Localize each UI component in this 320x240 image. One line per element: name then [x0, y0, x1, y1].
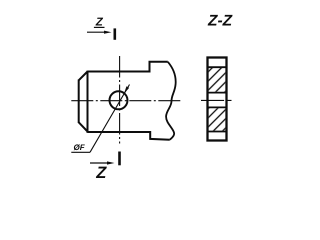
- svg-text:Z: Z: [95, 164, 107, 182]
- leader arrowhead: [124, 86, 129, 94]
- hole circle: [110, 91, 128, 109]
- cutting plane bottom: arrow line: [90, 162, 111, 164]
- section centerline: [201, 99, 232, 101]
- svg-text:ØF: ØF: [74, 143, 86, 152]
- section divider top: [208, 66, 227, 68]
- label shelf underline ØF: [71, 151, 90, 153]
- cutting plane bottom: arrowhead: [107, 161, 115, 164]
- bottom chamfer: [79, 122, 88, 132]
- section hole upper line: [208, 92, 227, 94]
- section divider bottom: [208, 131, 227, 133]
- part outline top edge: [88, 62, 168, 72]
- left end chamfer edge vertical: [87, 71, 89, 133]
- section hatch upper band: [209, 68, 226, 92]
- cutting plane top: underline: [94, 26, 105, 28]
- cutting plane bottom: thick bar: [118, 152, 121, 166]
- cutting plane top: arrow line: [87, 31, 107, 33]
- left face vertical: [78, 80, 80, 124]
- cutting plane top: arrowhead: [104, 31, 112, 34]
- break line (S-curve right edge): [166, 62, 176, 140]
- top chamfer: [79, 72, 88, 81]
- horizontal centerline (main view): [71, 100, 182, 102]
- part outline bottom edge: [88, 132, 170, 140]
- section hole lower line: [208, 106, 227, 108]
- svg-text:Z-Z: Z-Z: [207, 13, 233, 30]
- section hatch lower band: [209, 108, 226, 131]
- leader line to hole: [90, 85, 130, 153]
- section outline rectangle: [208, 58, 227, 141]
- svg-text:Z: Z: [95, 17, 104, 29]
- cutting plane top: thick bar: [114, 28, 117, 39]
- vertical centerline (main view): [119, 56, 121, 144]
